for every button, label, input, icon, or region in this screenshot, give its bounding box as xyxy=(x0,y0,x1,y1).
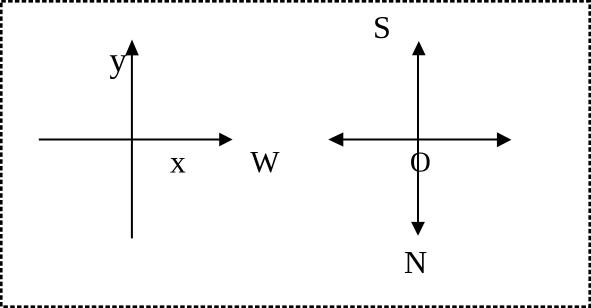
right figure: left arrowhead xyxy=(328,132,343,146)
svg-text:x: x xyxy=(170,144,186,179)
left figure: y-axis arrowhead (up) xyxy=(125,40,139,56)
svg-text:W: W xyxy=(250,144,280,179)
right figure: horizontal line xyxy=(340,139,500,141)
right figure: right arrowhead xyxy=(497,132,512,147)
svg-text:y: y xyxy=(109,41,127,80)
right figure: down arrowhead xyxy=(411,222,425,236)
right figure: up arrowhead xyxy=(412,41,426,55)
left figure: x-axis arrowhead (right) xyxy=(219,133,232,147)
left figure: x-axis horizontal line xyxy=(39,139,222,141)
left figure: y-axis vertical line xyxy=(131,50,133,238)
right figure: vertical line xyxy=(417,52,419,225)
svg-text:S: S xyxy=(373,9,391,45)
svg-text:O: O xyxy=(410,146,431,178)
svg-text:N: N xyxy=(404,244,427,280)
